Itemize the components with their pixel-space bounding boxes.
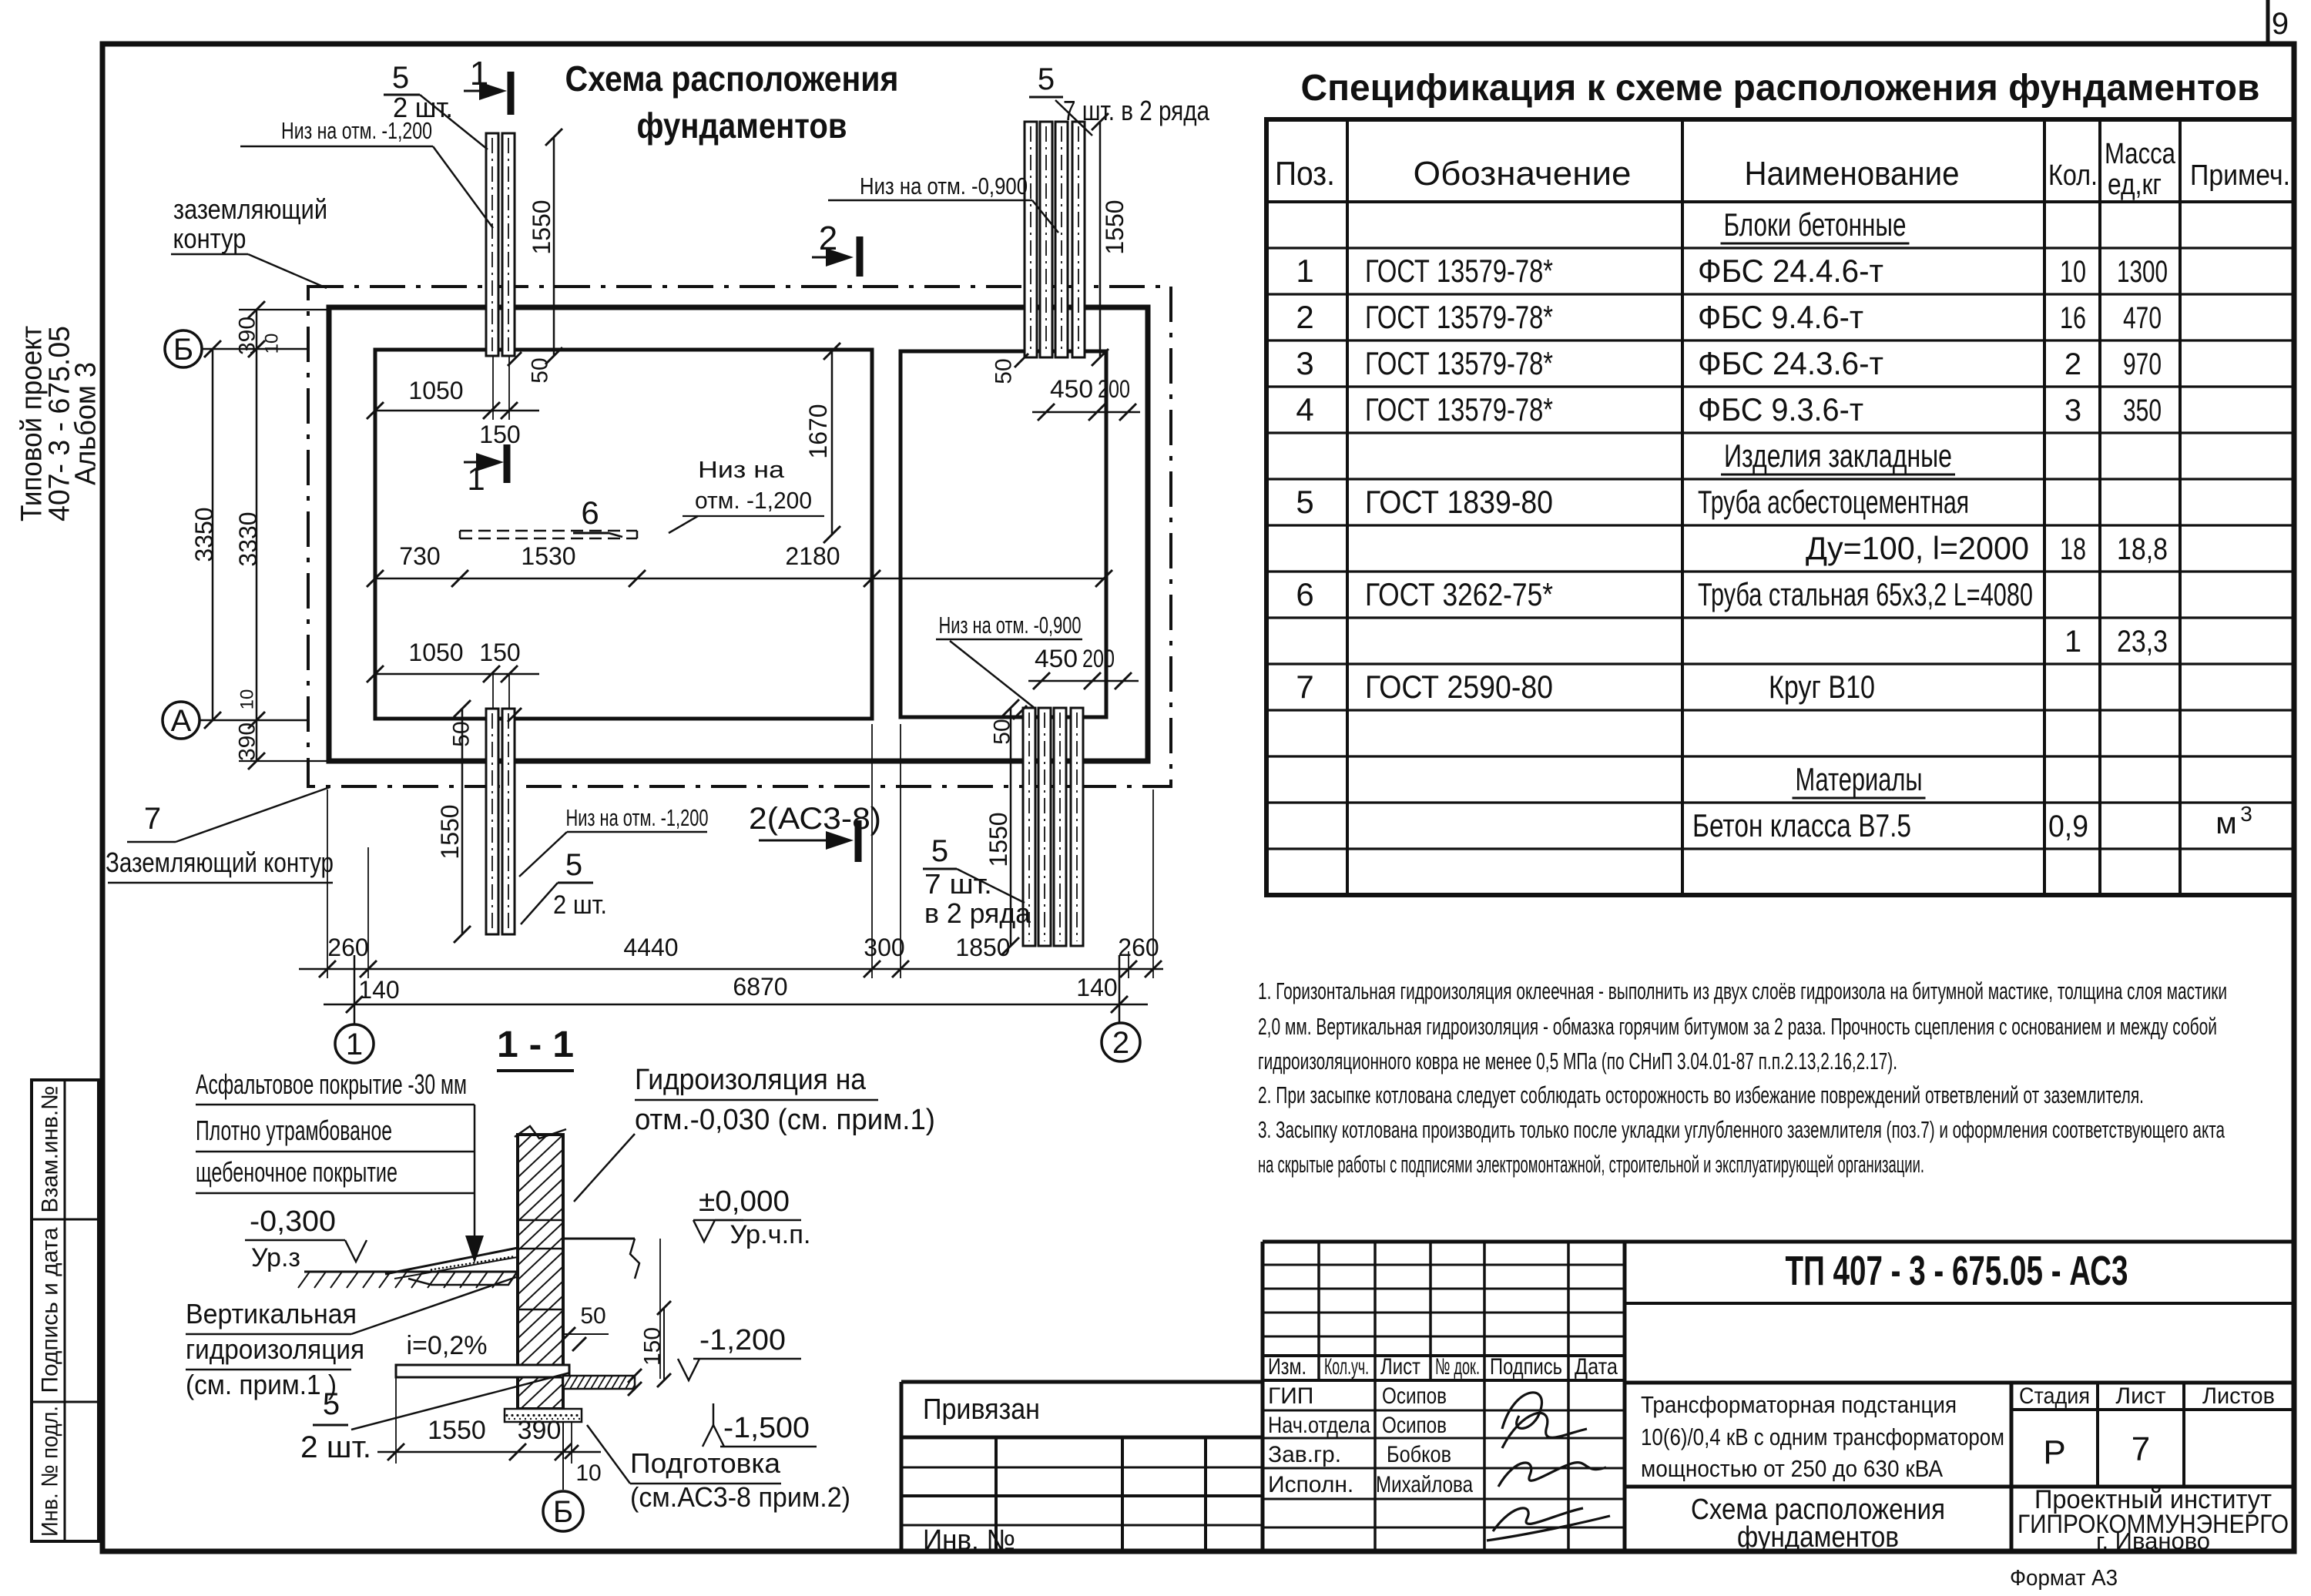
svg-text:ТП 407 - 3 - 675.05 - АС3: ТП 407 - 3 - 675.05 - АС3: [1786, 1248, 2128, 1294]
svg-text:заземляющий: заземляющий: [173, 193, 327, 225]
svg-text:Кол.: Кол.: [2048, 159, 2098, 192]
svg-text:1: 1: [1296, 253, 1313, 289]
svg-text:7 шт.: 7 шт.: [924, 868, 992, 900]
svg-text:ФБС 9.4.6-т: ФБС 9.4.6-т: [1698, 299, 1863, 335]
svg-text:Привязан: Привязан: [923, 1393, 1040, 1426]
svg-text:Заземляющий контур: Заземляющий контур: [106, 847, 334, 878]
svg-text:в 2 ряда: в 2 ряда: [924, 897, 1031, 929]
svg-text:2. При засыпке котлована следу: 2. При засыпке котлована следует соблюда…: [1258, 1081, 2144, 1108]
svg-text:2 шт.: 2 шт.: [300, 1430, 371, 1464]
svg-text:450: 450: [1050, 375, 1093, 403]
svg-text:Б: Б: [173, 333, 193, 367]
svg-text:Инв. №: Инв. №: [923, 1524, 1015, 1557]
svg-text:7: 7: [144, 802, 161, 836]
svg-text:Михайлова: Михайлова: [1376, 1472, 1473, 1497]
svg-text:Инв. № подл.: Инв. № подл.: [38, 1406, 63, 1537]
svg-text:отм. -1,200: отм. -1,200: [695, 487, 812, 514]
svg-text:Б: Б: [553, 1495, 573, 1529]
svg-text:6: 6: [581, 495, 599, 531]
svg-text:-0,300: -0,300: [250, 1205, 336, 1238]
svg-text:3330: 3330: [234, 511, 262, 566]
svg-text:Лист: Лист: [2115, 1383, 2165, 1409]
svg-text:фундаментов: фундаментов: [637, 106, 847, 146]
svg-text:5: 5: [392, 61, 409, 95]
svg-text:щебеночное покрытие: щебеночное покрытие: [196, 1156, 397, 1188]
svg-text:10(6)/0,4 кВ с одним трансформ: 10(6)/0,4 кВ с одним трансформатором: [1641, 1423, 2004, 1450]
svg-text:50: 50: [991, 358, 1017, 384]
svg-text:Дy=100, l=2000: Дy=100, l=2000: [1806, 530, 2029, 566]
svg-text:4: 4: [1296, 391, 1313, 427]
svg-text:Низ на отм. -0,900: Низ на отм. -0,900: [860, 173, 1028, 199]
svg-text:3: 3: [2240, 802, 2252, 826]
svg-text:мощностью от 250 до 630 кВА: мощностью от 250 до 630 кВА: [1641, 1455, 1943, 1482]
svg-text:4440: 4440: [623, 934, 678, 961]
svg-text:450: 450: [1035, 645, 1078, 672]
svg-text:2: 2: [1112, 1026, 1129, 1060]
svg-text:260: 260: [327, 934, 368, 961]
svg-text:200: 200: [1082, 645, 1115, 672]
svg-text:ГОСТ 1839-80: ГОСТ 1839-80: [1365, 484, 1553, 520]
svg-text:5: 5: [1038, 62, 1055, 96]
svg-text:200: 200: [1098, 375, 1130, 403]
svg-text:1550: 1550: [1101, 199, 1129, 254]
svg-text:0,9: 0,9: [2048, 810, 2088, 843]
svg-text:Масса: Масса: [2105, 138, 2176, 170]
svg-text:м: м: [2215, 806, 2237, 840]
svg-text:1050: 1050: [408, 377, 463, 404]
svg-text:7: 7: [2132, 1430, 2150, 1468]
svg-text:Схема расположения: Схема расположения: [565, 59, 899, 99]
svg-text:Бобков: Бобков: [1387, 1442, 1451, 1467]
svg-text:470: 470: [2123, 301, 2162, 335]
svg-text:390: 390: [235, 723, 260, 761]
svg-text:Лист: Лист: [1380, 1354, 1420, 1380]
svg-text:Подпись и дата: Подпись и дата: [38, 1227, 63, 1393]
svg-text:Подготовка: Подготовка: [630, 1447, 781, 1479]
svg-text:Блоки бетонные: Блоки бетонные: [1724, 206, 1907, 243]
svg-text:50: 50: [580, 1303, 605, 1329]
svg-text:ГОСТ 13579-78*: ГОСТ 13579-78*: [1365, 299, 1553, 335]
svg-text:i=0,2%: i=0,2%: [407, 1331, 488, 1360]
svg-text:2: 2: [2064, 347, 2081, 381]
svg-text:Примеч.: Примеч.: [2190, 159, 2290, 192]
svg-text:Стадия: Стадия: [2019, 1383, 2090, 1409]
svg-text:7 шт. в 2 ряда: 7 шт. в 2 ряда: [1063, 95, 1210, 126]
svg-text:3350: 3350: [190, 507, 218, 562]
svg-text:г. Иваново: г. Иваново: [2096, 1527, 2210, 1554]
svg-text:50: 50: [449, 721, 475, 746]
svg-text:Обозначение: Обозначение: [1414, 155, 1632, 193]
svg-text:6: 6: [1296, 576, 1313, 612]
svg-text:Труба стальная 65х3,2 L=4080: Труба стальная 65х3,2 L=4080: [1698, 576, 2033, 612]
svg-text:(см. прим.1 ): (см. прим.1 ): [186, 1369, 337, 1400]
svg-text:140: 140: [358, 976, 399, 1004]
svg-text:1550: 1550: [984, 812, 1012, 867]
svg-text:150: 150: [479, 421, 520, 448]
svg-text:Трансформаторная подстанция: Трансформаторная подстанция: [1641, 1391, 1957, 1418]
svg-text:Наименование: Наименование: [1745, 155, 1960, 193]
svg-text:150: 150: [640, 1327, 666, 1366]
svg-text:1670: 1670: [804, 404, 832, 458]
svg-text:3. Засыпку котлована производи: 3. Засыпку котлована производить только …: [1258, 1116, 2225, 1143]
svg-text:730: 730: [399, 542, 440, 570]
svg-text:Взам.инв.№: Взам.инв.№: [38, 1086, 63, 1213]
svg-text:Асфальтовое покрытие -30 мм: Асфальтовое покрытие -30 мм: [196, 1068, 467, 1100]
svg-text:отм.-0,030 (см. прим.1): отм.-0,030 (см. прим.1): [635, 1104, 935, 1136]
svg-text:150: 150: [479, 639, 520, 666]
svg-text:2 шт.: 2 шт.: [553, 890, 607, 920]
svg-text:1550: 1550: [528, 199, 555, 254]
svg-text:390: 390: [235, 317, 260, 355]
svg-text:гидроизоляционного ковра не ме: гидроизоляционного ковра не менее 0,5 МП…: [1258, 1048, 1897, 1075]
svg-text:на скрытые работы с подписями: на скрытые работы с подписями электромон…: [1258, 1151, 1924, 1178]
svg-text:5: 5: [931, 834, 948, 868]
svg-text:1: 1: [346, 1028, 363, 1061]
svg-text:Гидроизоляция на: Гидроизоляция на: [635, 1064, 867, 1096]
svg-text:Круг В10: Круг В10: [1769, 669, 1875, 705]
svg-text:18,8: 18,8: [2117, 532, 2168, 566]
svg-text:Кол.уч.: Кол.уч.: [1324, 1354, 1369, 1380]
svg-text:2: 2: [1296, 299, 1313, 335]
svg-text:9: 9: [2272, 7, 2289, 41]
svg-text:390: 390: [518, 1416, 562, 1445]
svg-text:1300: 1300: [2117, 255, 2168, 289]
svg-text:140: 140: [1076, 974, 1117, 1001]
svg-text:3: 3: [2064, 394, 2081, 427]
svg-text:Дата: Дата: [1575, 1354, 1618, 1380]
svg-text:10: 10: [2060, 255, 2086, 289]
svg-text:Материалы: Материалы: [1796, 761, 1923, 797]
svg-text:Формат А3: Формат А3: [2010, 1566, 2118, 1591]
svg-text:-1,500: -1,500: [723, 1412, 810, 1444]
svg-text:50: 50: [990, 719, 1015, 744]
svg-text:Р: Р: [2043, 1433, 2065, 1471]
svg-text:ГИП: ГИП: [1268, 1383, 1313, 1409]
svg-text:1550: 1550: [428, 1416, 486, 1445]
svg-text:6870: 6870: [733, 973, 787, 1001]
svg-text:ФБС 9.3.6-т: ФБС 9.3.6-т: [1698, 391, 1863, 427]
svg-text:контур: контур: [173, 223, 247, 254]
svg-text:350: 350: [2123, 394, 2162, 427]
svg-text:Листов: Листов: [2202, 1383, 2275, 1409]
svg-text:Спецификация к схеме расположе: Спецификация к схеме расположения фундам…: [1301, 68, 2260, 109]
svg-text:1550: 1550: [436, 804, 464, 859]
svg-text:1530: 1530: [521, 542, 575, 570]
svg-text:2,0 мм. Вертикальная гидроизол: 2,0 мм. Вертикальная гидроизоляция - обм…: [1258, 1013, 2217, 1040]
svg-text:1. Горизонтальная гидроизоляци: 1. Горизонтальная гидроизоляция оклеечна…: [1258, 977, 2227, 1004]
svg-text:А: А: [171, 704, 192, 738]
svg-text:±0,000: ±0,000: [699, 1185, 790, 1218]
svg-text:-1,200: -1,200: [699, 1324, 786, 1356]
svg-text:(см.АС3-8 прим.2): (см.АС3-8 прим.2): [630, 1481, 850, 1513]
svg-text:гидроизоляция: гидроизоляция: [186, 1333, 364, 1365]
svg-text:3: 3: [1296, 345, 1313, 381]
svg-text:Плотно утрамбованое: Плотно утрамбованое: [196, 1115, 392, 1146]
svg-text:1850: 1850: [955, 934, 1010, 961]
svg-text:Низ на: Низ на: [698, 456, 785, 483]
svg-text:10: 10: [261, 334, 282, 354]
svg-text:Изм.: Изм.: [1268, 1354, 1306, 1380]
svg-text:Изделия закладные: Изделия закладные: [1724, 438, 1952, 474]
svg-text:фундаментов: фундаментов: [1737, 1521, 1899, 1554]
svg-text:1 - 1: 1 - 1: [497, 1024, 574, 1065]
svg-text:ГОСТ 13579-78*: ГОСТ 13579-78*: [1365, 391, 1553, 427]
svg-text:ГОСТ 2590-80: ГОСТ 2590-80: [1365, 669, 1553, 705]
svg-text:Низ на отм. -0,900: Низ на отм. -0,900: [939, 612, 1082, 639]
svg-text:Труба асбестоцементная: Труба асбестоцементная: [1698, 484, 1969, 520]
svg-text:ГОСТ 13579-78*: ГОСТ 13579-78*: [1365, 345, 1553, 381]
svg-text:1050: 1050: [408, 639, 463, 666]
svg-text:ГОСТ 3262-75*: ГОСТ 3262-75*: [1365, 576, 1553, 612]
svg-text:ед,кг: ед,кг: [2108, 169, 2162, 201]
svg-text:Зав.гр.: Зав.гр.: [1268, 1442, 1341, 1467]
svg-text:Низ на отм. -1,200: Низ на отм. -1,200: [566, 804, 709, 831]
svg-text:ФБС 24.3.6-т: ФБС 24.3.6-т: [1698, 345, 1883, 381]
svg-text:10: 10: [236, 689, 257, 710]
svg-text:ГОСТ 13579-78*: ГОСТ 13579-78*: [1365, 253, 1553, 289]
svg-text:7: 7: [1296, 669, 1313, 705]
svg-text:300: 300: [864, 934, 904, 961]
svg-text:Поз.: Поз.: [1275, 155, 1335, 193]
svg-text:ФБС 24.4.6-т: ФБС 24.4.6-т: [1698, 253, 1883, 289]
svg-text:50: 50: [528, 357, 553, 383]
svg-text:Осипов: Осипов: [1382, 1413, 1447, 1438]
svg-text:10: 10: [575, 1460, 601, 1486]
svg-text:Осипов: Осипов: [1382, 1383, 1447, 1409]
svg-text:970: 970: [2123, 347, 2162, 381]
svg-text:Ур.ч.п.: Ур.ч.п.: [730, 1220, 811, 1249]
svg-text:Вертикальная: Вертикальная: [186, 1298, 357, 1329]
svg-text:16: 16: [2060, 301, 2086, 335]
svg-text:Подпись: Подпись: [1490, 1354, 1562, 1380]
svg-text:18: 18: [2060, 532, 2086, 566]
svg-text:5: 5: [1296, 484, 1313, 520]
svg-text:№ док.: № док.: [1435, 1354, 1480, 1380]
svg-text:Исполн.: Исполн.: [1268, 1472, 1353, 1497]
svg-text:Бетон класса В7.5: Бетон класса В7.5: [1692, 807, 1911, 843]
svg-text:5: 5: [565, 848, 582, 882]
svg-text:2180: 2180: [785, 542, 840, 570]
svg-text:Нач.отдела: Нач.отдела: [1268, 1413, 1370, 1438]
svg-text:23,3: 23,3: [2117, 625, 2168, 659]
svg-text:Ур.з: Ур.з: [251, 1243, 300, 1272]
svg-text:Низ на отм. -1,200: Низ на отм. -1,200: [281, 117, 432, 144]
svg-text:1: 1: [2064, 625, 2081, 659]
svg-text:Альбом 3: Альбом 3: [69, 362, 102, 485]
